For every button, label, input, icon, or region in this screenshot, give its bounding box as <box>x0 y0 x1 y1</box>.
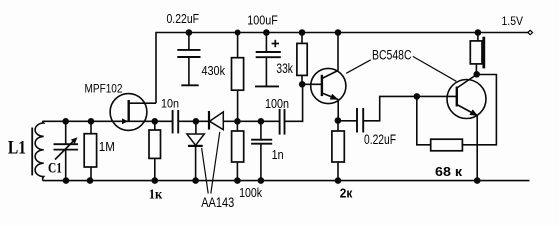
label pointer line BC548C to Q1 <box>346 60 371 74</box>
resistor 1k <box>154 121 156 130</box>
junction node 1M top <box>88 118 95 125</box>
svg-text:BC548C: BC548C <box>372 48 412 63</box>
svg-text:430k: 430k <box>202 63 226 78</box>
core line of L1 <box>31 128 33 176</box>
diode D2 AA143 (horizontal) <box>208 111 210 130</box>
svg-text:0.22uF: 0.22uF <box>167 12 200 26</box>
capacitor C1 (variable) <box>65 121 67 144</box>
junction node 430k / 100k <box>234 118 241 125</box>
capacitor 100n <box>279 109 281 135</box>
capacitor 0.22uF (coupling) <box>338 120 357 122</box>
svg-text:100n: 100n <box>265 97 289 111</box>
plus sign of 100uF <box>272 43 279 45</box>
svg-text:68 к: 68 к <box>435 164 463 179</box>
label pointer line BC548C to Q2 <box>413 56 457 81</box>
resistor 2k <box>337 120 339 131</box>
junction node Q1 base <box>299 81 306 88</box>
junction ground 100k <box>234 177 241 184</box>
junction node C1 top <box>62 118 69 125</box>
transistor Q2 BC548C <box>447 80 486 119</box>
capacitor C1 arrow head <box>71 137 78 144</box>
svg-text:C1: C1 <box>48 160 62 176</box>
junction ground 2k <box>335 177 342 184</box>
resistor 68k feedback <box>417 96 431 144</box>
inductor L1 <box>35 121 44 180</box>
svg-text:L1: L1 <box>8 138 26 159</box>
junction ground C1 <box>63 177 70 184</box>
resistor 1M <box>90 121 92 133</box>
node 1.5V terminal <box>528 30 533 34</box>
svg-text:100uF: 100uF <box>247 14 278 28</box>
junction ground D1 <box>192 177 199 184</box>
junction top rail R collector Q2 <box>475 29 482 36</box>
wire 100n to base node Q1 <box>285 84 303 121</box>
transistor U1 MPF102 <box>110 94 147 131</box>
junction top rail 0.22uF <box>186 29 193 36</box>
svg-text:1n: 1n <box>272 147 284 162</box>
svg-text:10n: 10n <box>161 99 179 111</box>
svg-text:2к: 2к <box>340 186 353 201</box>
svg-text:100k: 100k <box>239 186 263 200</box>
junction node 1n top <box>258 118 265 125</box>
junction top rail 430k <box>235 30 241 36</box>
junction node D1 / D2 <box>193 118 200 125</box>
junction node Q1 emitter <box>335 117 342 124</box>
resistor 430k <box>237 33 239 58</box>
resistor 100k <box>236 121 238 131</box>
junction ground 1n <box>258 177 265 184</box>
svg-text:AA143: AA143 <box>201 194 234 210</box>
capacitor 1n <box>260 121 262 139</box>
svg-text:0.22uF: 0.22uF <box>364 132 396 147</box>
junction top rail 100uF <box>263 29 270 36</box>
svg-text:MPF102: MPF102 <box>85 82 123 96</box>
resistor collector Q2 <box>477 33 479 41</box>
junction node Q2 collector <box>473 71 480 78</box>
capacitor 10n <box>172 110 174 133</box>
junction ground Q2 emitter <box>474 177 481 184</box>
wire top supply rail <box>156 33 529 104</box>
ground rail <box>43 180 530 182</box>
wire 10n to diode D2 <box>178 120 209 122</box>
capacitor 0.22uF (rail decoupling) <box>188 33 190 50</box>
wire diode D2 to 100n <box>223 120 279 122</box>
svg-text:1M: 1M <box>99 139 115 154</box>
junction node 1k / 10n <box>152 118 159 125</box>
resistor 33k <box>301 33 303 44</box>
label pointer lines AA143 <box>202 148 209 194</box>
svg-text:1к: 1к <box>149 187 163 202</box>
junction top rail Q1 collector <box>335 29 342 36</box>
junction top rail 33k <box>299 29 306 36</box>
junction ground 1k <box>152 177 159 184</box>
transistor U1 gate arrow <box>122 118 128 124</box>
wire main signal line left (tank to 10n) <box>42 120 172 122</box>
transistor Q1 BC548C <box>311 68 346 103</box>
svg-text:1.5V: 1.5V <box>502 14 524 28</box>
diode D1 AA143 (vertical) <box>195 121 197 134</box>
capacitor 100uF electrolytic <box>265 33 267 53</box>
junction ground 1M <box>87 177 94 184</box>
svg-text:33k: 33k <box>276 61 293 76</box>
wire base Q1 <box>302 83 322 85</box>
junction node Q2 base <box>414 93 421 100</box>
